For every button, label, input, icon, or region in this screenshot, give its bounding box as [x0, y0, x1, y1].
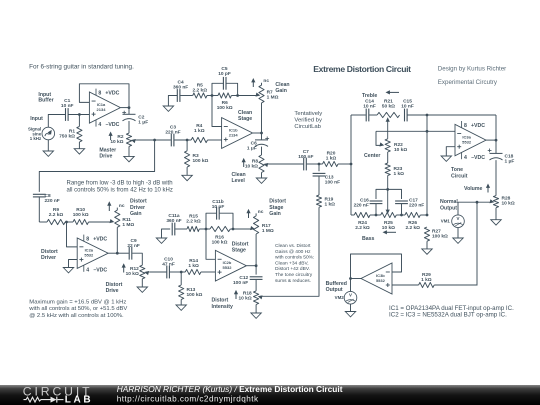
wire IC2a output: [108, 252, 117, 254]
ground under R1: [78, 142, 80, 149]
svg-text:Normal: Normal: [440, 199, 458, 205]
resistor R24: [351, 214, 354, 216]
svg-text:2.2 kΩ: 2.2 kΩ: [49, 212, 64, 218]
wire signal to C1: [48, 115, 65, 128]
capacitor C5 feedback: [212, 83, 223, 95]
wire tone top rail: [427, 114, 496, 116]
svg-text:750 kΩ: 750 kΩ: [59, 133, 75, 139]
wire normal output to R29: [476, 202, 478, 285]
svg-text:Gain: Gain: [130, 211, 142, 217]
svg-text:1 μF: 1 μF: [247, 145, 257, 151]
ground under R8: [261, 173, 263, 179]
wire R8 wiper to C7: [269, 163, 303, 165]
wire IC3a output: [486, 139, 496, 141]
svg-text:Distort +42 dBV.: Distort +42 dBV.: [275, 266, 310, 272]
node IC2a output: [116, 252, 119, 255]
arrow Master Drive: [110, 135, 112, 140]
wire R10 to R11 wiper: [89, 221, 112, 223]
wire R29 to output node: [434, 284, 477, 286]
svg-text:Experimental Circutry: Experimental Circutry: [438, 79, 498, 86]
wire R23 to R25 wiper: [387, 176, 389, 212]
svg-text:1 kΩ: 1 kΩ: [325, 201, 336, 207]
svg-text:http://circuitlab.com/c2dnymjr: http://circuitlab.com/c2dnymjrdqhtk: [117, 395, 259, 404]
svg-text:10 nF: 10 nF: [61, 103, 74, 109]
svg-text:100 kΩ: 100 kΩ: [217, 105, 233, 111]
potentiometer R8 Clean Level: [261, 147, 263, 155]
ground under VM1: [457, 228, 459, 239]
wire IC1a output: [121, 107, 129, 109]
logo diode: [51, 397, 57, 403]
node distort sum: [205, 228, 208, 231]
capacitor C2: [128, 108, 130, 115]
svg-text:1 kΩ: 1 kΩ: [394, 171, 405, 177]
potentiometer R21 Treble: [369, 114, 377, 116]
svg-text:100 kΩ: 100 kΩ: [212, 239, 228, 245]
svg-text:2.2 kΩ: 2.2 kΩ: [186, 219, 201, 225]
svg-text:360 nF: 360 nF: [173, 84, 188, 90]
svg-text:Input: Input: [30, 116, 43, 122]
voltmeter VM2: [350, 279, 352, 292]
wire rail to C14: [351, 114, 366, 116]
svg-text:Gains @ 400 Hz: Gains @ 400 Hz: [275, 249, 311, 255]
resistor R23: [385, 163, 390, 176]
svg-text:10 kΩ: 10 kΩ: [110, 139, 123, 145]
svg-text:10 nF: 10 nF: [401, 104, 414, 110]
svg-text:all controls 50% is from 42 Hz: all controls 50% is from 42 Hz to 10 kHz: [67, 188, 173, 194]
svg-text:10 kΩ: 10 kΩ: [245, 163, 258, 169]
arrow Clean Gain: [252, 82, 254, 88]
svg-text:VM2: VM2: [335, 295, 345, 300]
svg-text:220 nF: 220 nF: [409, 202, 424, 208]
node IC1a output: [128, 106, 131, 109]
arrow Volume: [487, 187, 489, 193]
capacitor C17: [395, 200, 408, 202]
node bass right: [400, 214, 403, 217]
svg-text:100 kΩ: 100 kΩ: [193, 158, 209, 164]
ground under R12: [141, 279, 143, 287]
wire IC2a plus to ground: [69, 260, 78, 268]
resistor R1: [78, 115, 80, 127]
wire IC3a minus row: [376, 130, 455, 132]
wire IC3b plus to R29: [392, 284, 419, 286]
capacitor C11b feedback: [206, 213, 216, 229]
resistor R29: [419, 282, 435, 287]
wire IC2b output: [246, 265, 256, 267]
wire R4 to IC1b plus: [208, 139, 222, 141]
svg-text:4: 4: [464, 155, 467, 161]
svg-text:10 pF: 10 pF: [212, 204, 225, 210]
svg-text:Intensity: Intensity: [212, 304, 233, 310]
node R9/R10: [65, 221, 68, 224]
svg-text:4: 4: [86, 267, 89, 273]
potentiometer R25 Bass: [376, 214, 381, 216]
capacitor C9: [128, 247, 130, 260]
svg-text:10 kΩ: 10 kΩ: [126, 271, 139, 277]
ground at C4: [168, 96, 177, 107]
logo schematic squiggle: [24, 397, 64, 402]
wire bass bracket: [376, 189, 402, 199]
capacitor C3: [170, 134, 172, 147]
svg-text:1 μF: 1 μF: [505, 159, 515, 165]
svg-text:@ 2.5 kHz with all controls at: @ 2.5 kHz with all controls at 100%.: [29, 313, 124, 319]
svg-text:Tentatively: Tentatively: [294, 111, 322, 117]
svg-text:Driver: Driver: [41, 255, 56, 261]
svg-text:+VDC: +VDC: [471, 123, 485, 129]
svg-text:1 MΩ: 1 MΩ: [262, 228, 274, 234]
capacitor C11a: [171, 223, 173, 236]
ground under R28: [491, 220, 501, 225]
capacitor C4: [176, 89, 178, 102]
wire C3 to R4: [174, 139, 191, 141]
svg-text:220 nF: 220 nF: [45, 198, 60, 204]
potentiometer R18 Distort Intensity: [255, 280, 257, 291]
svg-text:Buffer: Buffer: [38, 98, 53, 104]
svg-text:sums & reduces.: sums & reduces.: [275, 278, 311, 284]
voltmeter VM1: [457, 202, 459, 215]
wire R20 to rail: [338, 163, 351, 165]
resistor R14: [185, 269, 201, 274]
node IC3b output: [349, 277, 352, 280]
wire C10 to R14: [170, 271, 186, 273]
op-amp U2b (IC2b): [215, 250, 246, 281]
svg-text:Maximum gain = +16.5 dBV @ 1 k: Maximum gain = +16.5 dBV @ 1 kHz: [29, 299, 126, 305]
svg-text:100 nF: 100 nF: [325, 180, 340, 186]
svg-text:Drive: Drive: [99, 154, 112, 160]
arrow Distort Stage Gain: [248, 212, 250, 218]
svg-text:LAB: LAB: [65, 395, 93, 405]
capacitor C8: [33, 193, 46, 195]
svg-text:Gain: Gain: [275, 88, 287, 94]
wire IC3a plus to ground: [446, 147, 455, 156]
svg-text:1 kΩ: 1 kΩ: [194, 128, 205, 134]
node master drive: [153, 139, 156, 142]
svg-text:5532: 5532: [376, 278, 386, 283]
wire IC3b output: [351, 278, 362, 280]
resistor R13: [180, 272, 182, 285]
svg-text:Distort: Distort: [106, 282, 123, 288]
resistor R3: [186, 140, 188, 151]
node tone input: [350, 163, 353, 166]
node treble right: [426, 114, 429, 117]
wire IC1b minus: [212, 96, 222, 127]
capacitor C16: [370, 200, 383, 202]
wire distort feed: [262, 207, 319, 296]
arrow Clean Level: [243, 161, 245, 167]
svg-text:5532: 5532: [84, 253, 94, 258]
capacitor C10: [166, 266, 168, 279]
svg-text:Level: Level: [232, 178, 246, 184]
svg-text:Distort: Distort: [212, 298, 229, 304]
ground under R2: [128, 146, 130, 156]
svg-text:8: 8: [86, 236, 89, 242]
svg-text:IC2 = IC3 = NE5532A dual BJT o: IC2 = IC3 = NE5532A dual BJT op-amp IC.: [389, 312, 507, 319]
svg-text:with controls 50%:: with controls 50%:: [275, 255, 314, 261]
svg-text:50 kΩ: 50 kΩ: [382, 104, 395, 110]
svg-text:1 MΩ: 1 MΩ: [267, 95, 279, 101]
wire tone left rail: [350, 115, 352, 215]
resistor R19: [318, 176, 320, 195]
svg-text:HARRISON RICHTER (Kurtus) / Ex: HARRISON RICHTER (Kurtus) / Extreme Dist…: [117, 384, 343, 394]
svg-text:Stage: Stage: [269, 205, 283, 211]
node minus cross: [426, 130, 429, 133]
svg-text:−VDC: −VDC: [471, 155, 485, 161]
arrow Distort Driver Gain: [108, 205, 110, 211]
svg-text:100 nF: 100 nF: [233, 280, 248, 286]
wire R14 to IC2b plus: [201, 271, 216, 273]
node IC2b output: [255, 264, 258, 267]
svg-text:47 nF: 47 nF: [162, 262, 175, 268]
svg-text:10 kΩ: 10 kΩ: [382, 225, 395, 231]
arrow Treble: [389, 91, 399, 93]
svg-text:1 kHz: 1 kHz: [30, 136, 42, 141]
svg-text:10 pF: 10 pF: [218, 71, 231, 77]
wire C8 to R9: [38, 197, 40, 222]
svg-text:with all controls at 50%, or +: with all controls at 50%, or +51.5 dBV: [28, 306, 127, 312]
wire IC1a feedback: [79, 84, 129, 108]
svg-text:Clean +34 dBV,: Clean +34 dBV,: [275, 260, 309, 266]
svg-text:220 nF: 220 nF: [354, 202, 369, 208]
svg-text:2134: 2134: [229, 132, 239, 137]
wire to C9: [117, 252, 129, 254]
node bass left: [375, 214, 378, 217]
ground at IC3a plus: [441, 156, 451, 161]
wire IC3b feedback: [351, 254, 402, 279]
wire C15 to node: [408, 114, 428, 116]
signal source V1: [42, 127, 55, 140]
potentiometer R12 Distort Drive: [140, 265, 145, 279]
ground under VM2: [350, 304, 352, 312]
node IC3a output: [495, 139, 498, 142]
op-amp U1b (IC1b): [222, 118, 253, 149]
wire to R17 wiper: [233, 228, 252, 230]
svg-text:VM1: VM1: [441, 219, 451, 224]
node R16 right: [232, 228, 235, 231]
ground at IC2a plus: [63, 268, 73, 273]
resistor R15: [187, 226, 199, 231]
svg-text:1 kΩ: 1 kΩ: [326, 155, 337, 161]
svg-text:Tone: Tone: [451, 167, 463, 173]
svg-text:Gain: Gain: [269, 211, 281, 217]
node normal output: [476, 201, 479, 204]
svg-text:nc: nc: [119, 204, 125, 209]
svg-text:100 nF: 100 nF: [298, 154, 313, 160]
svg-text:+VDC: +VDC: [105, 90, 119, 96]
node clean/distort sum: [318, 163, 321, 166]
wire master to C8: [39, 140, 154, 192]
svg-text:2.2 kΩ: 2.2 kΩ: [405, 225, 420, 231]
op-amp U3b (IC3b): [361, 263, 392, 294]
potentiometer R11 Distort Driver Gain: [116, 208, 118, 211]
svg-text:22 nF: 22 nF: [127, 243, 140, 249]
node R13 top: [180, 271, 183, 274]
svg-text:10 kΩ: 10 kΩ: [239, 296, 252, 302]
resistor R4: [191, 137, 207, 142]
resistor R20: [323, 161, 339, 166]
capacitor C15: [404, 109, 406, 122]
svg-text:Verified by: Verified by: [294, 118, 322, 124]
svg-text:Center: Center: [364, 153, 380, 159]
svg-text:Stage: Stage: [238, 116, 252, 122]
arrow Distort Intensity: [235, 293, 237, 299]
capacitor C13: [318, 164, 320, 171]
ground under V1: [47, 140, 49, 151]
svg-text:Design by Kurtus Richter: Design by Kurtus Richter: [438, 65, 506, 72]
ground at C11a: [162, 229, 171, 238]
svg-text:220 nF: 220 nF: [165, 130, 180, 136]
potentiometer R17 Distort Stage Gain: [255, 213, 257, 216]
resistor R26: [402, 214, 406, 216]
svg-text:Output: Output: [440, 205, 457, 211]
wire C7 to node: [307, 163, 323, 165]
capacitor C7: [303, 158, 305, 171]
svg-text:2.2 kΩ: 2.2 kΩ: [355, 225, 370, 231]
svg-text:100 kΩ: 100 kΩ: [187, 292, 203, 298]
node R27 top: [426, 214, 429, 217]
svg-text:100 kΩ: 100 kΩ: [73, 212, 89, 218]
footer bar: [0, 385, 540, 405]
svg-text:V: V: [349, 293, 352, 298]
svg-text:Circuit: Circuit: [451, 173, 468, 179]
svg-text:10 nF: 10 nF: [363, 104, 376, 110]
svg-text:Stage: Stage: [232, 247, 246, 253]
svg-text:100 kΩ: 100 kΩ: [432, 234, 448, 240]
wire R15 to node: [199, 228, 206, 230]
wire R5 to node: [207, 95, 212, 97]
svg-text:The tone circuitry: The tone circuitry: [275, 272, 313, 278]
resistor R27: [424, 227, 429, 241]
node clean sum: [211, 94, 214, 97]
svg-text:V: V: [457, 216, 460, 221]
ground under R27: [422, 249, 432, 254]
svg-text:Driver: Driver: [130, 205, 145, 211]
ground under R18: [255, 305, 257, 314]
svg-text:−VDC: −VDC: [93, 267, 107, 273]
svg-text:360 nF: 360 nF: [166, 218, 181, 224]
svg-text:Range from low -3 dB to high -: Range from low -3 dB to high -3 dB with: [67, 181, 173, 187]
node bass bracket: [386, 188, 389, 191]
svg-text:1 MΩ: 1 MΩ: [122, 222, 134, 228]
op-amp U3a (IC3a): [455, 124, 486, 155]
wire to R7 wiper: [238, 95, 257, 97]
resistor R16: [206, 228, 210, 230]
wire R12 wiper to C10: [150, 271, 167, 273]
capacitor C14: [365, 109, 367, 122]
svg-text:1 kΩ: 1 kΩ: [188, 263, 199, 269]
wire tone right rail: [426, 115, 428, 215]
resistor R5: [193, 93, 207, 98]
svg-text:Clean vs. Distort: Clean vs. Distort: [275, 243, 311, 249]
svg-text:Volume: Volume: [464, 186, 482, 192]
ground under R3: [186, 167, 188, 175]
potentiometer R22 Center: [385, 139, 390, 152]
wire IC1b output: [253, 132, 262, 134]
resistor R9: [47, 219, 65, 224]
svg-text:Distort: Distort: [269, 199, 286, 205]
svg-text:2134: 2134: [97, 107, 107, 112]
svg-text:For 6-string guitar in standar: For 6-string guitar in standard tuning.: [29, 63, 134, 70]
node R3 top: [186, 139, 189, 142]
node IC1b output: [260, 132, 263, 135]
svg-text:1 kΩ: 1 kΩ: [421, 277, 432, 283]
wire IC2b minus: [206, 229, 215, 259]
wire volume wiper row: [458, 201, 490, 203]
svg-text:5532: 5532: [223, 265, 233, 270]
potentiometer R28 Volume: [493, 196, 498, 208]
capacitor C1: [65, 108, 67, 121]
svg-text:+VDC: +VDC: [93, 236, 107, 242]
arrow Distort Drive: [123, 267, 125, 273]
node R1 top: [78, 113, 81, 116]
svg-text:CircuitLab: CircuitLab: [294, 124, 321, 130]
resistor R6: [212, 95, 218, 97]
svg-text:nc: nc: [258, 210, 264, 215]
wire C1 to op-amp: [69, 114, 90, 116]
svg-text:1 μF: 1 μF: [138, 120, 148, 126]
svg-text:Distort: Distort: [130, 199, 147, 205]
wire C9 to R12: [132, 253, 142, 265]
op-amp U2a (IC2a): [77, 238, 108, 268]
wire C4 to R5: [180, 95, 192, 97]
svg-text:Treble: Treble: [362, 93, 377, 99]
svg-text:2.2 kΩ: 2.2 kΩ: [193, 88, 208, 94]
resistor R10: [65, 221, 73, 223]
svg-text:5532: 5532: [462, 140, 472, 145]
op-amp U1a (IC1a): [89, 92, 120, 123]
ground under R13: [180, 300, 182, 306]
svg-text:10 kΩ: 10 kΩ: [394, 147, 407, 153]
potentiometer R2 Master Drive: [128, 121, 130, 133]
svg-text:Output: Output: [326, 287, 343, 293]
capacitor C12: [255, 266, 257, 275]
svg-text:Bass: Bass: [362, 236, 375, 242]
svg-text:4: 4: [98, 122, 101, 128]
svg-text:8: 8: [464, 123, 467, 129]
wire IC2a minus: [67, 222, 78, 247]
wire output rail corner: [495, 115, 497, 140]
arrow Bass: [386, 231, 396, 233]
svg-text:10 kΩ: 10 kΩ: [502, 201, 515, 207]
svg-text:−VDC: −VDC: [105, 122, 119, 128]
wire C18 to R28: [495, 160, 497, 196]
capacitor C6: [261, 133, 263, 140]
wire C11a to R15: [175, 228, 187, 230]
potentiometer R7 Clean Gain: [261, 83, 263, 85]
svg-text:Extreme Distortion Circuit: Extreme Distortion Circuit: [313, 64, 411, 74]
wire master drive node: [137, 139, 171, 141]
capacitor C18: [495, 140, 497, 153]
wire R22 wiper bracket: [376, 131, 381, 145]
svg-text:Drive: Drive: [106, 288, 119, 294]
svg-text:nc: nc: [263, 79, 269, 84]
svg-text:8: 8: [98, 90, 101, 96]
node R6 right: [236, 94, 239, 97]
